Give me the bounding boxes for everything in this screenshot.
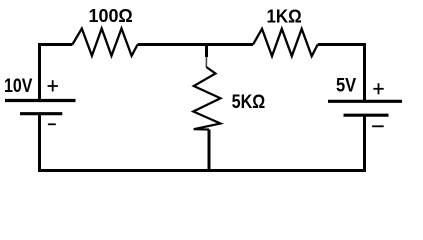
svg-text:5KΩ: 5KΩ bbox=[232, 92, 266, 113]
wire bottom bbox=[38, 169, 366, 172]
wire top-left corner to 100ohm lead bbox=[40, 45, 73, 101]
wire top middle segment bbox=[138, 43, 253, 46]
minus sign V1 bbox=[48, 123, 56, 125]
label 100ohm bbox=[89, 6, 133, 26]
wire top-right corner bbox=[318, 45, 365, 102]
resistor R3 5Kohm vertical zigzag bbox=[193, 67, 220, 130]
svg-text:100Ω: 100Ω bbox=[89, 6, 133, 26]
plus sign V2 bbox=[373, 83, 383, 94]
label 1Kohm bbox=[267, 7, 302, 27]
resistor R2 1Kohm zigzag bbox=[253, 29, 318, 56]
svg-text:5V: 5V bbox=[336, 76, 356, 97]
svg-text:1KΩ: 1KΩ bbox=[267, 7, 302, 27]
wire battery V1 to bottom bbox=[38, 115, 41, 171]
minus sign V2 bbox=[372, 125, 384, 127]
battery V2 5V short plate bbox=[344, 114, 389, 117]
label 5V bbox=[336, 76, 356, 97]
label 10V bbox=[4, 76, 33, 97]
battery V2 5V long plate bbox=[328, 100, 402, 103]
resistor R1 100ohm zigzag bbox=[72, 29, 137, 56]
wire middle bottom lead bbox=[208, 130, 211, 172]
plus sign V1 bbox=[48, 80, 58, 91]
wire battery V2 to bottom bbox=[363, 117, 366, 172]
battery V1 10V short plate bbox=[20, 112, 62, 115]
svg-text:10V: 10V bbox=[4, 76, 33, 97]
label 5Kohm bbox=[232, 92, 266, 113]
node junction middle top bbox=[205, 45, 208, 68]
battery V1 10V long plate bbox=[5, 99, 76, 102]
